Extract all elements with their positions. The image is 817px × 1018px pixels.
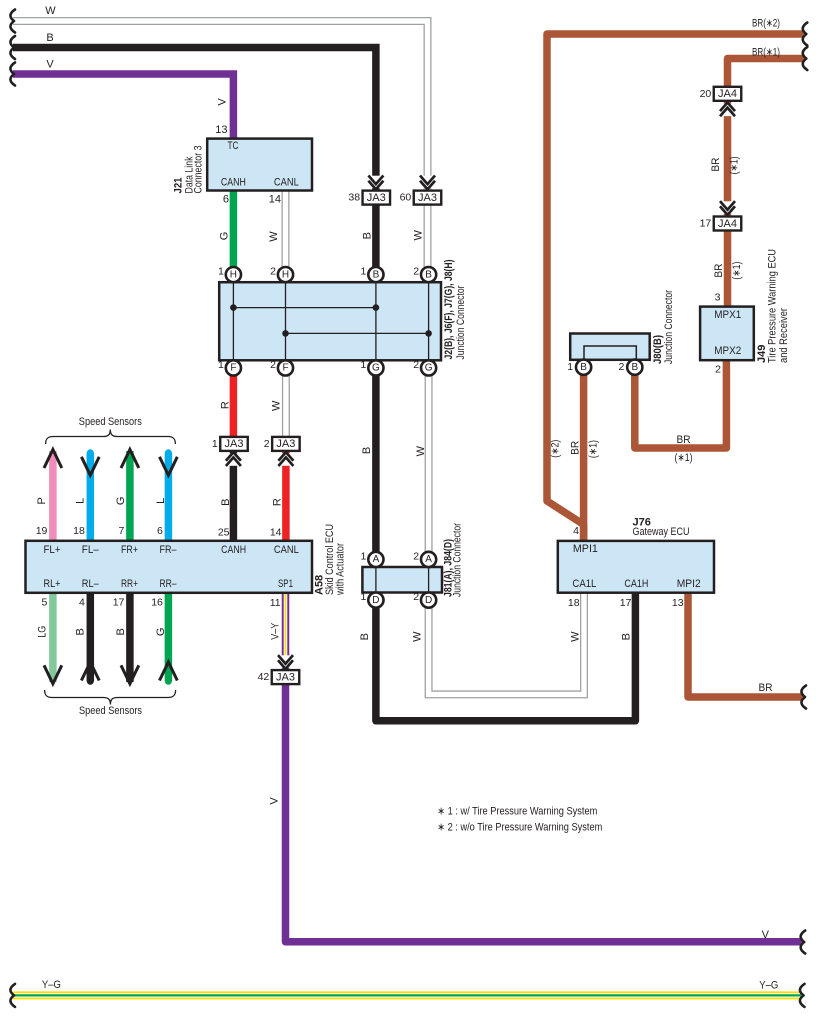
svg-text:5: 5 [42,597,48,609]
svg-text:BR(∗1): BR(∗1) [752,46,780,58]
svg-text:B: B [75,628,87,635]
svg-text:MPX2: MPX2 [714,345,741,357]
svg-text:19: 19 [36,525,48,537]
svg-text:Connector 3: Connector 3 [193,146,205,194]
svg-text:MPI2: MPI2 [677,578,701,590]
svg-text:6: 6 [157,525,163,537]
svg-text:1: 1 [361,266,367,278]
svg-text:H: H [282,269,289,280]
svg-text:L: L [75,498,87,504]
svg-text:V: V [217,98,229,106]
svg-text:60: 60 [400,192,412,204]
svg-text:7: 7 [119,525,125,537]
svg-text:B: B [580,362,587,373]
svg-text:JA3: JA3 [225,438,244,450]
svg-text:W: W [271,400,283,411]
svg-text:J80(B): J80(B) [652,335,664,364]
svg-text:CA1H: CA1H [624,578,648,590]
svg-text:BR: BR [569,441,581,455]
svg-text:G: G [115,497,127,506]
svg-text:and Receiver: and Receiver [778,308,790,363]
svg-text:D: D [425,595,432,606]
svg-text:R: R [220,401,232,409]
svg-text:P: P [36,497,48,504]
svg-text:B: B [621,633,633,640]
svg-text:FR–: FR– [160,544,178,556]
svg-text:14: 14 [270,527,282,539]
svg-text:JA3: JA3 [276,671,295,683]
svg-text:3: 3 [715,291,721,303]
svg-text:11: 11 [270,597,281,609]
svg-text:1: 1 [218,359,224,371]
svg-text:RR–: RR– [160,578,178,590]
svg-text:Y–G: Y–G [759,980,778,992]
svg-text:14: 14 [269,193,281,205]
svg-text:Junction Connector: Junction Connector [455,285,467,359]
svg-text:JA4: JA4 [718,88,737,100]
svg-text:2: 2 [270,359,276,371]
svg-text:Tire Pressure Warning ECU: Tire Pressure Warning ECU [766,249,778,363]
svg-text:B: B [425,269,432,280]
svg-text:42: 42 [258,671,270,683]
svg-text:(∗1): (∗1) [675,452,693,464]
svg-text:6: 6 [223,193,229,205]
svg-text:17: 17 [700,218,712,230]
svg-text:W: W [415,445,427,456]
svg-text:18: 18 [73,525,85,537]
svg-text:2: 2 [715,363,721,375]
svg-text:BR: BR [759,682,773,694]
svg-text:W: W [413,229,425,240]
svg-text:CANH: CANH [221,176,246,188]
svg-text:Y–G: Y–G [42,979,61,991]
svg-text:2: 2 [413,550,419,562]
svg-text:16: 16 [151,597,163,609]
svg-text:Speed Sensors: Speed Sensors [79,416,142,428]
svg-text:B: B [631,362,638,373]
svg-text:2: 2 [270,266,276,278]
svg-text:JA4: JA4 [718,218,737,230]
svg-text:13: 13 [215,124,227,136]
svg-text:JA3: JA3 [276,438,295,450]
svg-text:1: 1 [361,359,367,371]
svg-text:F: F [230,363,236,374]
svg-text:TC: TC [228,140,239,152]
svg-text:G: G [155,628,167,637]
svg-text:G: G [372,363,380,374]
svg-text:RL–: RL– [82,578,100,590]
svg-text:W: W [570,631,582,642]
svg-text:G: G [425,363,433,374]
svg-text:(∗1): (∗1) [729,156,741,174]
svg-text:W: W [45,5,56,17]
svg-text:JA3: JA3 [418,192,437,204]
svg-text:1: 1 [212,438,218,450]
svg-text:B: B [115,628,127,635]
svg-text:FL–: FL– [82,544,100,556]
svg-text:∗ 2 : w/o Tire Pressure Warnin: ∗ 2 : w/o Tire Pressure Warning System [437,821,602,833]
svg-text:17: 17 [113,597,125,609]
svg-text:W: W [412,631,424,642]
svg-text:2: 2 [618,361,624,373]
svg-text:B: B [46,32,53,44]
svg-text:BR: BR [710,158,722,172]
svg-text:1: 1 [361,591,367,603]
svg-text:1: 1 [218,266,224,278]
svg-text:Junction Connector: Junction Connector [452,523,464,597]
svg-text:MPI1: MPI1 [573,543,598,555]
svg-text:Junction Connector: Junction Connector [663,290,675,364]
svg-text:R: R [272,498,284,506]
svg-text:Gateway ECU: Gateway ECU [633,526,690,538]
svg-text:MPX1: MPX1 [714,309,741,321]
svg-text:BR: BR [677,434,691,446]
svg-text:CANL: CANL [274,544,299,556]
svg-text:JA3: JA3 [367,192,386,204]
svg-text:CA1L: CA1L [572,578,596,590]
svg-text:SP1: SP1 [278,578,293,590]
svg-text:with Actuator: with Actuator [335,543,347,596]
svg-text:CANL: CANL [274,176,299,188]
svg-text:20: 20 [700,88,712,100]
svg-text:RL+: RL+ [44,578,61,590]
svg-text:4: 4 [79,597,85,609]
svg-text:(∗1): (∗1) [731,262,743,280]
svg-text:J2(B), J6(F), J7(G), J8(H): J2(B), J6(F), J7(G), J8(H) [443,259,455,359]
svg-text:4: 4 [573,525,579,537]
svg-text:(∗2): (∗2) [550,440,562,458]
svg-text:2: 2 [264,438,270,450]
svg-text:17: 17 [620,597,632,609]
svg-text:25: 25 [218,527,230,539]
svg-text:∗ 1 : w/ Tire Pressure Warning: ∗ 1 : w/ Tire Pressure Warning System [437,805,597,817]
svg-text:V–Y: V–Y [270,622,282,640]
svg-text:2: 2 [413,266,419,278]
svg-text:B: B [359,633,371,640]
svg-text:A: A [373,554,380,565]
svg-text:2: 2 [413,591,419,603]
svg-text:L: L [155,498,167,504]
svg-text:LG: LG [37,626,49,638]
svg-text:G: G [218,232,230,241]
svg-text:1: 1 [361,550,367,562]
svg-text:V: V [46,59,54,71]
svg-text:BR(∗2): BR(∗2) [752,18,780,30]
svg-text:F: F [282,363,288,374]
svg-text:2: 2 [413,359,419,371]
svg-text:D: D [372,595,379,606]
svg-text:W: W [268,231,280,242]
svg-text:FL+: FL+ [44,544,61,556]
svg-text:18: 18 [568,597,580,609]
svg-text:CANH: CANH [221,544,246,556]
svg-text:RR+: RR+ [121,578,138,590]
svg-text:BR: BR [713,264,725,278]
svg-text:A: A [425,554,432,565]
svg-text:B: B [220,499,232,506]
svg-text:H: H [230,269,237,280]
svg-text:B: B [373,269,380,280]
svg-text:B: B [361,232,373,239]
svg-text:13: 13 [672,597,684,609]
svg-text:J21: J21 [172,178,184,194]
svg-text:B: B [361,447,373,454]
svg-text:V: V [269,797,281,805]
svg-text:1: 1 [567,361,573,373]
svg-text:Speed Sensors: Speed Sensors [79,705,142,717]
svg-text:FR+: FR+ [121,544,138,556]
svg-text:(∗1): (∗1) [587,440,599,458]
svg-text:V: V [762,929,770,941]
svg-text:38: 38 [348,192,360,204]
